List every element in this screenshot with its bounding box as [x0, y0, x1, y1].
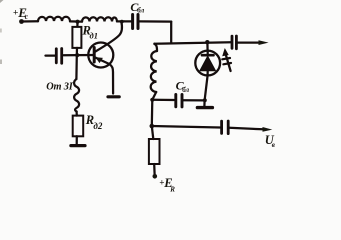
svg-text:д2: д2	[93, 121, 102, 131]
svg-text:д1: д1	[90, 30, 98, 40]
svg-text:бл: бл	[137, 6, 144, 14]
svg-text:От ЗГ: От ЗГ	[46, 82, 75, 93]
svg-text:в: в	[272, 141, 275, 149]
svg-text:R: R	[169, 186, 175, 194]
svg-text:бл: бл	[182, 86, 189, 94]
